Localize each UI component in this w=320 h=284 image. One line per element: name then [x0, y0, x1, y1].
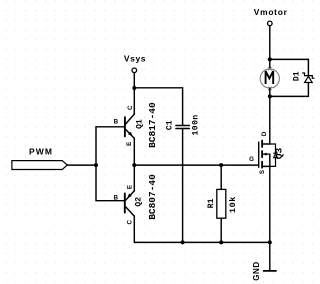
value 10k	[228, 196, 238, 213]
pin label G	[249, 156, 254, 163]
svg-text:Q3: Q3	[274, 148, 285, 160]
junction node A	[132, 86, 136, 90]
value 100n	[192, 114, 201, 135]
pin label B	[114, 119, 119, 126]
junction C1 bottom	[181, 240, 185, 244]
junction bottom right	[268, 240, 272, 244]
svg-text:C: C	[127, 220, 134, 225]
wire PWM to base node	[67, 164, 96, 166]
wire Vsys to node A	[133, 73, 135, 88]
wire R1 bottom lead	[220, 218, 222, 242]
svg-text:Vsys: Vsys	[124, 54, 146, 64]
pin label D	[261, 131, 268, 136]
label C1	[166, 120, 175, 130]
svg-text:BC817-40: BC817-40	[147, 102, 158, 148]
svg-text:100n: 100n	[192, 114, 201, 135]
svg-text:B: B	[114, 119, 119, 126]
pin label E	[126, 142, 133, 146]
svg-text:10k: 10k	[228, 196, 238, 213]
value BC807-40	[147, 174, 158, 220]
wire D1 to motor bottom	[270, 83, 309, 97]
junction gate-R1	[219, 163, 223, 167]
wire emitters to gate	[134, 164, 258, 166]
net label Vsys	[124, 54, 146, 64]
wire Q1 emitter to rail	[133, 138, 135, 165]
label Q1	[135, 119, 144, 129]
wire Vmotor down	[269, 26, 271, 60]
svg-text:E: E	[126, 185, 133, 189]
label Q2	[135, 197, 144, 207]
wire Q3 source to bottom rail	[269, 166, 271, 242]
svg-text:B: B	[113, 194, 118, 201]
value BC817-40	[147, 102, 158, 148]
svg-text:C1: C1	[166, 120, 175, 130]
junction motor bottom	[268, 94, 272, 98]
svg-text:Q1: Q1	[135, 119, 144, 129]
svg-text:PWM: PWM	[29, 147, 53, 157]
junction emitters	[132, 163, 136, 167]
diode D1 schottky	[303, 73, 314, 83]
label Q3	[274, 148, 285, 160]
pin label E (Q2)	[126, 185, 133, 189]
resistor R1	[217, 189, 226, 218]
svg-text:E: E	[126, 142, 133, 146]
pin label B (Q2)	[113, 194, 118, 201]
svg-text:Vmotor: Vmotor	[254, 7, 288, 17]
wire node A to Q1 collector	[133, 88, 135, 114]
wire Q2 collector to bottom rail	[133, 216, 135, 242]
junction R1 bottom	[219, 240, 223, 244]
wire to motor +	[269, 59, 271, 68]
svg-text:R1: R1	[207, 198, 216, 208]
wire node A to C1	[134, 88, 182, 125]
junction PWM node	[94, 163, 98, 167]
svg-text:GND: GND	[252, 261, 261, 280]
pin label C (Q2)	[127, 220, 134, 225]
svg-text:Q2: Q2	[135, 197, 144, 207]
wire bottom rail	[134, 241, 269, 243]
svg-text:C: C	[127, 105, 134, 110]
svg-text:D1: D1	[292, 71, 301, 81]
wire to GND	[269, 242, 271, 271]
pin label S	[259, 170, 266, 174]
wire motor top to D1	[270, 59, 309, 75]
transistor Q1	[125, 114, 134, 138]
wire motor bottom to Q3 drain	[269, 96, 271, 144]
ground GND	[264, 270, 276, 272]
motor M1	[260, 67, 279, 90]
wire motor - down	[269, 88, 271, 96]
label R1	[207, 198, 216, 208]
wire R1 top lead	[220, 165, 222, 189]
junction motor top	[268, 57, 272, 61]
net label PWM	[29, 147, 53, 157]
mosfet Q3	[259, 141, 278, 168]
capacitor C1	[176, 126, 189, 129]
svg-text:G: G	[249, 156, 254, 163]
wire base line	[96, 127, 125, 201]
svg-text:D: D	[261, 131, 268, 136]
wire C1 to bottom rail	[182, 129, 184, 243]
pin label C	[127, 105, 134, 110]
svg-text:BC807-40: BC807-40	[147, 174, 158, 220]
net label GND	[252, 261, 261, 280]
label D1	[292, 71, 301, 81]
svg-text:S: S	[259, 170, 266, 174]
terminal Vmotor	[268, 21, 273, 26]
transistor Q2	[125, 191, 135, 216]
net label Vmotor	[254, 7, 288, 17]
terminal Vsys	[132, 68, 137, 73]
net flag PWM	[12, 161, 67, 170]
wire rail to Q2 emitter	[133, 165, 135, 191]
